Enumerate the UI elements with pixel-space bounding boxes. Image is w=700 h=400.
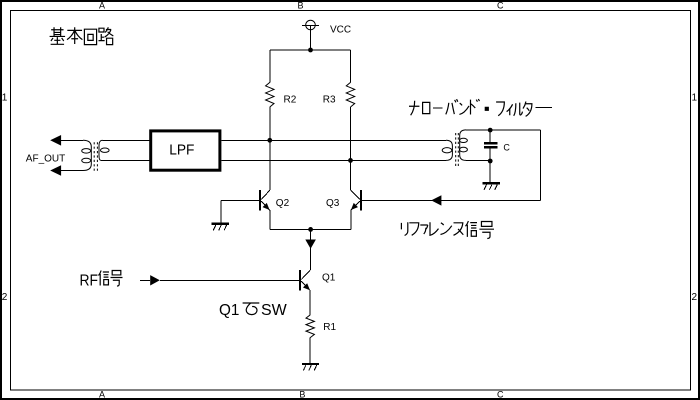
capacitor C	[484, 130, 497, 161]
label Q2	[276, 198, 290, 209]
transformer T2 narrow band filter	[442, 130, 467, 168]
svg-text:C: C	[503, 142, 510, 152]
text title 基本回路	[50, 27, 114, 44]
svg-text:R2: R2	[284, 95, 297, 106]
text リファレンス信号	[401, 221, 494, 239]
text RF信号	[80, 270, 123, 289]
label Q3	[326, 198, 340, 209]
text Q1でSW	[219, 302, 288, 319]
svg-text:Q1: Q1	[322, 272, 336, 283]
transformer T1 output	[82, 140, 109, 171]
label C	[503, 142, 510, 152]
block LPF	[151, 131, 220, 170]
wire Q1 emitter to R1	[309, 291, 311, 315]
wire emitter link	[270, 228, 351, 230]
svg-text:Q1: Q1	[219, 302, 239, 319]
wire LPF out bottom to filter	[221, 159, 446, 161]
wire T1 to LPF top	[103, 139, 151, 141]
node capacitor top junction	[488, 128, 493, 133]
svg-text:R3: R3	[323, 95, 336, 106]
ground capacitor	[482, 183, 499, 190]
ground Q2 base	[212, 224, 229, 231]
wire VCC rail	[270, 49, 351, 51]
arrow RF signal input	[150, 275, 160, 285]
svg-text:1: 1	[2, 92, 8, 103]
svg-text:2: 2	[2, 292, 8, 303]
wire Q3 emitter down	[350, 210, 352, 229]
svg-text:C: C	[497, 390, 504, 400]
svg-text:2: 2	[692, 292, 698, 303]
arrow AF_OUT top	[50, 135, 61, 146]
resistor R3	[346, 82, 354, 107]
wire T2 secondary top	[466, 129, 540, 131]
wire Q3 base to reference	[362, 199, 540, 201]
arrow current down to Q1	[305, 240, 316, 249]
text ナローバンド・フィルター	[409, 99, 552, 116]
node common emitter junction	[308, 227, 313, 232]
wire R2 top	[269, 50, 271, 82]
arrow AF_OUT bottom	[50, 165, 61, 176]
svg-text:LPF: LPF	[169, 142, 194, 159]
svg-text:Q2: Q2	[276, 198, 290, 209]
wire RF input lead	[140, 279, 150, 281]
wire R3 bottom to Q3 collector	[350, 107, 352, 190]
wire T2 secondary bottom	[466, 159, 490, 161]
transistor Q3	[351, 190, 361, 210]
svg-text:AF_OUT: AF_OUT	[26, 153, 65, 164]
node capacitor bottom junction	[488, 159, 493, 164]
power VCC	[302, 20, 319, 50]
ground R1	[302, 364, 319, 371]
transistor Q1	[300, 270, 310, 290]
svg-text:RF: RF	[80, 273, 99, 290]
node VCC rail junction	[308, 48, 313, 53]
svg-text:SW: SW	[261, 302, 288, 319]
label Q1	[322, 272, 336, 283]
resistor R1	[306, 315, 314, 338]
svg-text:B: B	[297, 0, 303, 10]
wire Q2 emitter down	[269, 210, 271, 229]
wire capacitor to ground	[489, 161, 491, 183]
label R3	[323, 95, 336, 106]
wire LPF out top to filter	[221, 139, 446, 141]
wire Q2 base ground stem	[220, 200, 222, 223]
node top line junction R2	[267, 138, 272, 143]
transistor Q2	[260, 190, 270, 210]
svg-text:VCC: VCC	[330, 25, 351, 36]
wire Q1 base	[160, 279, 299, 281]
svg-text:C: C	[497, 0, 504, 10]
svg-text:1: 1	[692, 92, 698, 103]
node bottom line junction R3	[348, 158, 353, 163]
wire common emitter to Q1 collector	[310, 229, 312, 270]
wire R1 to ground	[309, 338, 311, 364]
label R2	[284, 95, 297, 106]
arrow reference signal into Q3 base	[431, 195, 441, 205]
svg-text:B: B	[299, 390, 305, 400]
wire R3 top	[350, 50, 352, 82]
label R1	[323, 322, 336, 333]
label AF_OUT	[26, 153, 65, 164]
wire T1 to LPF bottom	[101, 159, 151, 161]
svg-text:R1: R1	[323, 322, 336, 333]
svg-text:A: A	[99, 0, 105, 10]
label VCC	[330, 25, 351, 36]
wire AF_OUT bottom	[61, 170, 83, 172]
wire AF_OUT top	[61, 139, 83, 141]
resistor R2	[266, 82, 274, 107]
wire Q2 base	[221, 199, 259, 201]
svg-text:A: A	[99, 390, 105, 400]
wire R2 bottom to Q2 collector	[269, 107, 271, 190]
svg-text:Q3: Q3	[326, 198, 340, 209]
wire reference feedback right	[539, 130, 541, 201]
